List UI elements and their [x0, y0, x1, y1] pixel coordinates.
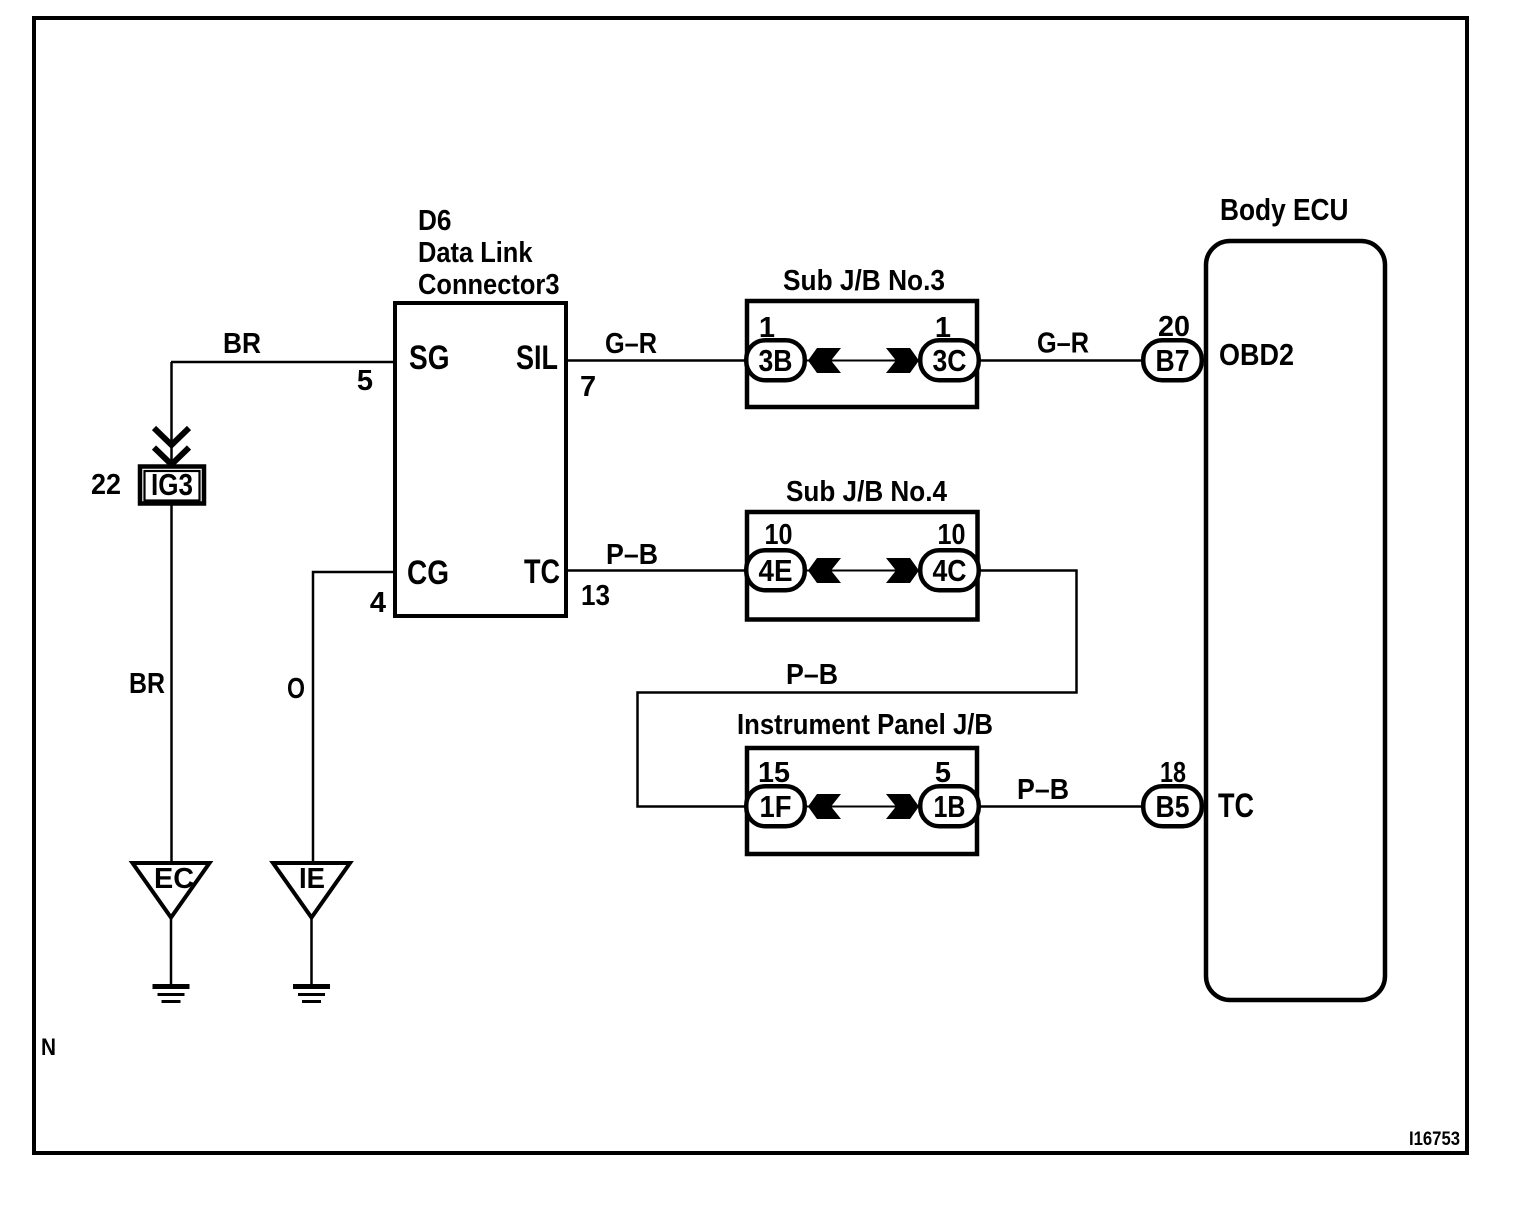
arrow right (toward 4C): [886, 558, 919, 583]
ground triangle EC: [133, 863, 210, 918]
svg-text:I16753: I16753: [1409, 1129, 1460, 1150]
svg-text:10: 10: [765, 519, 793, 551]
wire P-B from 1B to Body ECU B5: [980, 805, 1150, 808]
svg-text:3B: 3B: [759, 343, 793, 378]
svg-text:4: 4: [370, 587, 386, 619]
svg-text:OBD2: OBD2: [1219, 337, 1294, 372]
arrow left (toward 4E): [808, 558, 841, 583]
wire P-B from 4C routed down to Instrument Panel J/B 1F: [638, 571, 1077, 807]
svg-text:D6: D6: [418, 205, 452, 237]
svg-text:5: 5: [935, 757, 951, 789]
ground symbol (EC): [153, 984, 190, 1003]
wire P-B from TC to Sub J/B No.4: [566, 569, 750, 572]
junction box Instrument Panel J/B: [747, 748, 977, 854]
wire BR horizontal from node to connector D6 pin 5 (SG): [171, 361, 395, 364]
svg-text:3C: 3C: [933, 343, 967, 378]
junction box Sub J/B No.3: [747, 301, 977, 407]
svg-text:5: 5: [357, 365, 373, 397]
svg-text:1: 1: [759, 312, 775, 344]
wire from EC to ground symbol: [170, 917, 173, 986]
connector oval 3B: [746, 340, 805, 380]
svg-text:4C: 4C: [933, 553, 967, 588]
svg-text:1F: 1F: [760, 789, 792, 824]
svg-text:B7: B7: [1156, 343, 1190, 378]
svg-text:18: 18: [1160, 757, 1186, 789]
svg-text:B5: B5: [1156, 789, 1190, 824]
arrow right (toward 3C): [886, 348, 919, 373]
svg-text:P–B: P–B: [606, 539, 658, 571]
connector oval 3C: [920, 340, 979, 380]
svg-text:Body ECU: Body ECU: [1220, 192, 1349, 227]
svg-text:Sub J/B No.4: Sub J/B No.4: [786, 476, 947, 508]
svg-text:G–R: G–R: [1037, 328, 1089, 360]
arrow right (toward 1B): [886, 794, 919, 819]
wire from IE to ground symbol: [310, 917, 313, 986]
svg-text:G–R: G–R: [605, 328, 657, 360]
svg-text:CG: CG: [407, 554, 449, 592]
connector oval 4E: [746, 550, 805, 590]
wire O from connector D6 pin 4 (CG) down to ground IE: [313, 572, 395, 863]
arrow chevrons into fuse IG3: [154, 428, 189, 465]
wire BR from IG3 down to ground EC: [170, 505, 173, 863]
svg-text:IG3: IG3: [151, 467, 193, 502]
fuse IG3 box: [140, 467, 204, 504]
svg-text:O: O: [287, 673, 305, 705]
svg-text:EC: EC: [154, 863, 194, 895]
svg-text:TC: TC: [1218, 787, 1254, 825]
wire G-R from 3C to Body ECU B7: [980, 359, 1150, 362]
connector D6 (Data Link Connector3) box: [395, 303, 566, 616]
wire G-R from SIL to Sub J/B No.3: [566, 359, 750, 362]
connector oval B7: [1143, 340, 1202, 380]
svg-text:Data Link: Data Link: [418, 237, 533, 269]
label D6 Data Link Connector3: [418, 205, 560, 301]
svg-text:P–B: P–B: [786, 659, 838, 691]
svg-text:P–B: P–B: [1017, 774, 1069, 806]
ground triangle IE: [273, 863, 350, 918]
svg-text:N: N: [41, 1034, 56, 1061]
svg-text:20: 20: [1158, 311, 1190, 343]
arrow left (toward 3B): [808, 348, 841, 373]
junction box Sub J/B No.4: [747, 512, 978, 620]
connector oval 1B: [920, 786, 979, 826]
svg-text:4E: 4E: [759, 553, 793, 588]
wire segment down to IG3 fuse: [170, 362, 173, 466]
ECU U1 Body ECU box: [1206, 241, 1385, 1000]
svg-text:1B: 1B: [934, 789, 966, 824]
svg-text:TC: TC: [524, 553, 560, 591]
svg-text:SIL: SIL: [516, 339, 558, 377]
svg-text:Instrument Panel J/B: Instrument Panel J/B: [737, 709, 993, 741]
svg-text:BR: BR: [223, 328, 261, 360]
svg-text:15: 15: [758, 757, 790, 789]
connector oval 1F: [746, 786, 805, 826]
svg-text:22: 22: [91, 469, 121, 501]
connector oval 4C: [920, 550, 979, 590]
svg-text:Connector3: Connector3: [418, 269, 560, 301]
connector oval B5: [1143, 786, 1202, 826]
ground symbol (IE): [293, 984, 330, 1003]
wire between 3B and 3C: [807, 360, 921, 362]
svg-text:7: 7: [580, 371, 596, 403]
svg-text:IE: IE: [299, 863, 325, 895]
svg-text:10: 10: [938, 519, 966, 551]
svg-text:Sub J/B No.3: Sub J/B No.3: [783, 265, 945, 297]
wire between 1F and 1B: [807, 806, 921, 808]
arrow left (toward 1F): [808, 794, 841, 819]
svg-text:13: 13: [581, 580, 610, 612]
svg-text:BR: BR: [129, 668, 165, 700]
wire between 4E and 4C: [807, 570, 921, 572]
svg-text:1: 1: [935, 312, 951, 344]
svg-text:SG: SG: [409, 339, 450, 377]
